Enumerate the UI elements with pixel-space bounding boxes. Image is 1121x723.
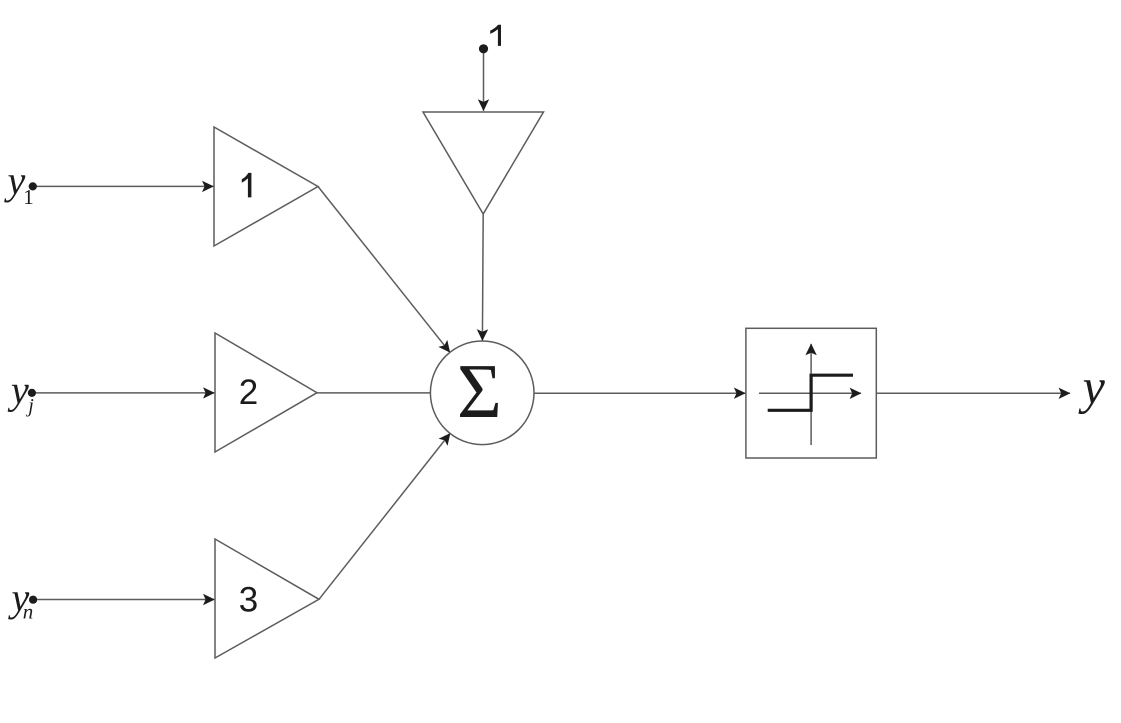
activation x-axis: [759, 392, 861, 394]
step function curve: [768, 375, 853, 410]
label weight 1: [242, 173, 252, 198]
wire input yn: [34, 599, 214, 601]
svg-text:Σ: Σ: [457, 348, 502, 434]
svg-text:2: 2: [239, 373, 258, 412]
activation function box: [746, 328, 876, 458]
node dot yj: [28, 389, 36, 397]
label bias 1: [490, 25, 501, 46]
node dot yn: [29, 596, 37, 604]
amplifier triangle 3: [215, 539, 319, 658]
amplifier triangle 2: [215, 333, 317, 452]
wire input yj: [34, 392, 214, 394]
summation circle: [430, 341, 534, 445]
svg-text:3: 3: [239, 580, 258, 619]
wire activation to output: [876, 392, 1070, 394]
wire weight1 to sum: [318, 187, 450, 353]
wire sum to activation: [534, 392, 745, 394]
wire bias triangle to sum: [481, 214, 484, 341]
amplifier triangle 1: [214, 127, 318, 246]
svg-text:y: y: [7, 368, 29, 413]
bias triangle: [423, 112, 544, 214]
svg-text:n: n: [23, 600, 34, 624]
node dot y1: [29, 182, 37, 190]
wire weight3 to sum: [319, 433, 450, 599]
activation y-axis: [810, 344, 812, 445]
wire weight2 to sum: [317, 392, 430, 394]
svg-text:y: y: [1078, 359, 1106, 415]
svg-text:y: y: [4, 158, 26, 203]
svg-text:1: 1: [23, 185, 34, 209]
node dot bias: [479, 44, 488, 53]
wire input y1: [34, 185, 213, 187]
wire bias top: [483, 53, 485, 111]
